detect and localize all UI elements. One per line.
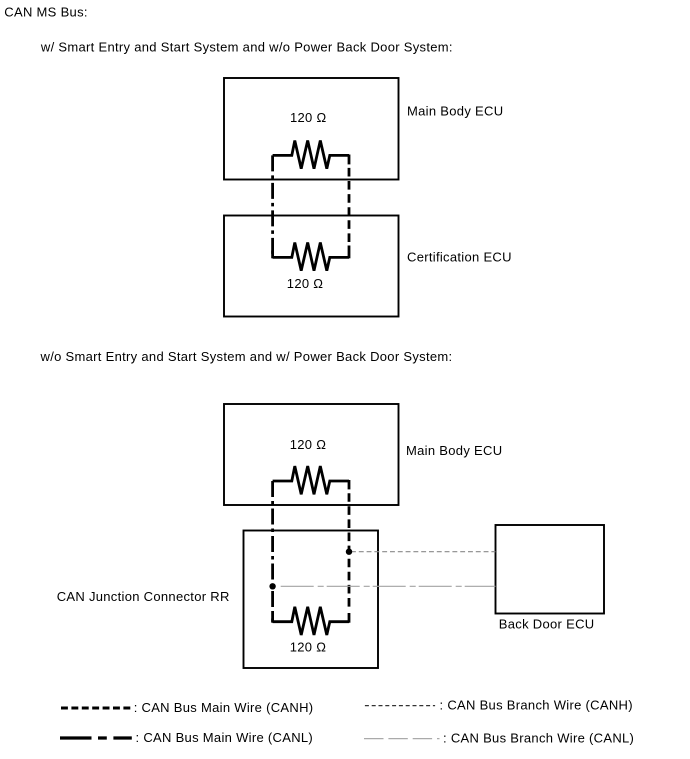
svg-text:CAN MS Bus:: CAN MS Bus: [4, 5, 87, 20]
svg-text:Certification ECU: Certification ECU [407, 250, 512, 265]
svg-text:Back Door ECU: Back Door ECU [499, 616, 595, 631]
svg-text:w/ Smart Entry and Start Syste: w/ Smart Entry and Start System and w/o … [40, 39, 453, 54]
svg-text:Main Body ECU: Main Body ECU [406, 443, 502, 458]
svg-text:: CAN Bus Main Wire (CANH): : CAN Bus Main Wire (CANH) [134, 700, 314, 715]
svg-text:120 Ω: 120 Ω [290, 110, 327, 125]
svg-text:: CAN Bus Main Wire (CANL): : CAN Bus Main Wire (CANL) [136, 730, 314, 745]
svg-text:120 Ω: 120 Ω [290, 640, 327, 655]
svg-text:CAN Junction Connector RR: CAN Junction Connector RR [57, 589, 230, 604]
svg-text:: CAN Bus Branch Wire (CANH): : CAN Bus Branch Wire (CANH) [440, 698, 633, 713]
svg-text:w/o Smart Entry and Start Syst: w/o Smart Entry and Start System and w/ … [40, 349, 453, 364]
svg-text:Main Body ECU: Main Body ECU [407, 104, 503, 119]
svg-text:120 Ω: 120 Ω [287, 276, 324, 291]
svg-text:: CAN Bus Branch Wire (CANL): : CAN Bus Branch Wire (CANL) [443, 731, 634, 746]
svg-text:120 Ω: 120 Ω [290, 437, 327, 452]
